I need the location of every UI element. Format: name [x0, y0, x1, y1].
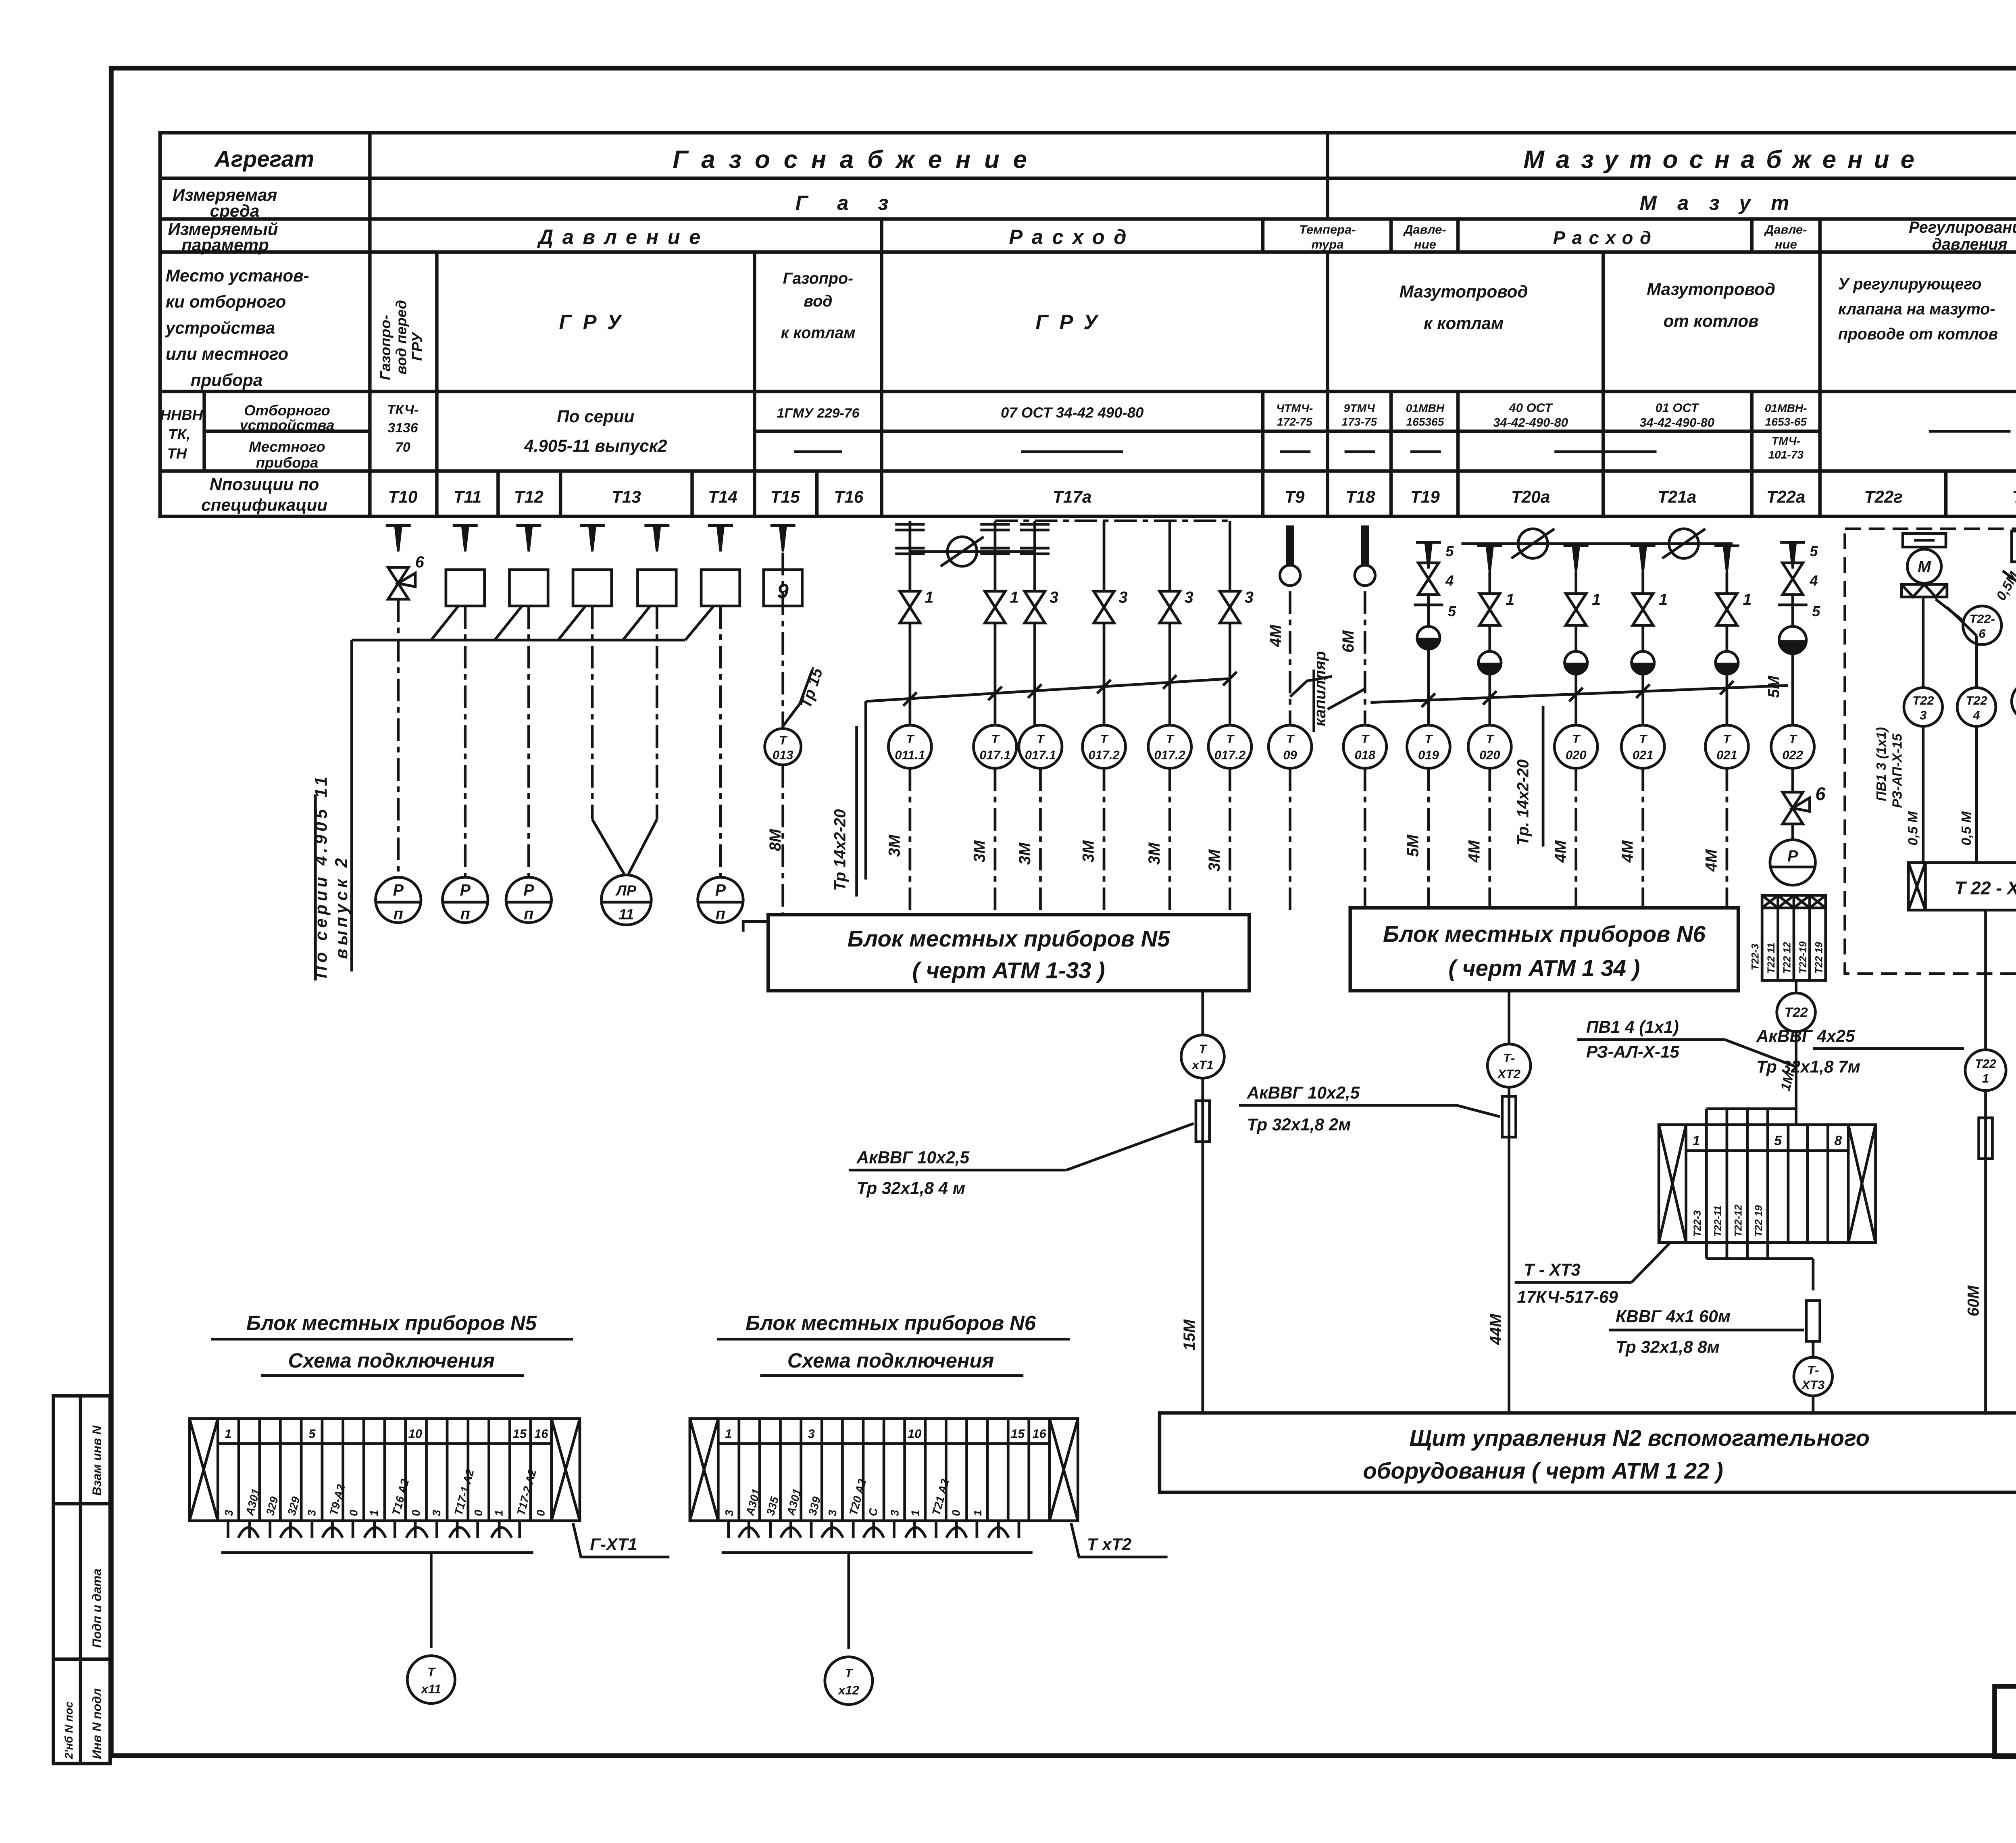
- svg-text:020: 020: [1566, 748, 1587, 762]
- svg-text:Т: Т: [779, 733, 788, 747]
- svg-text:6: 6: [1979, 626, 1986, 640]
- svg-text:3М: 3М: [1206, 849, 1223, 871]
- svg-text:ГРУ: ГРУ: [1035, 311, 1109, 334]
- svg-text:Т 22 - ХТ: Т 22 - ХТ: [1955, 878, 2016, 898]
- svg-text:017.1: 017.1: [979, 748, 1010, 762]
- svg-text:х12: х12: [837, 1683, 859, 1697]
- svg-text:017.2: 017.2: [1088, 748, 1119, 762]
- svg-text:1: 1: [368, 1510, 380, 1516]
- svg-text:4: 4: [1972, 708, 1980, 722]
- svg-text:Т19: Т19: [1410, 488, 1440, 507]
- svg-text:6: 6: [415, 553, 425, 571]
- svg-text:4: 4: [1445, 572, 1454, 589]
- svg-text:1: 1: [1506, 591, 1514, 609]
- svg-text:Взам инв N: Взам инв N: [90, 1425, 104, 1496]
- svg-text:3М: 3М: [1016, 842, 1034, 865]
- svg-text:Т10: Т10: [388, 488, 418, 507]
- svg-text:от котлов: от котлов: [1663, 311, 1758, 330]
- svg-text:10: 10: [408, 1426, 422, 1441]
- svg-text:Расход: Расход: [1553, 227, 1658, 248]
- svg-text:0,5 М: 0,5 М: [1906, 811, 1921, 845]
- svg-text:Тр 32х1,8 2м: Тр 32х1,8 2м: [1247, 1115, 1351, 1134]
- svg-text:Т15: Т15: [771, 488, 800, 507]
- svg-text:5: 5: [1448, 603, 1456, 619]
- svg-text:5М: 5М: [1404, 834, 1422, 857]
- svg-text:Т: Т: [845, 1666, 854, 1680]
- svg-text:1: 1: [225, 1426, 231, 1441]
- svg-text:ГРУ: ГРУ: [409, 331, 425, 361]
- svg-text:1: 1: [493, 1510, 505, 1516]
- svg-text:01МВН: 01МВН: [1406, 402, 1445, 414]
- svg-text:Т21а: Т21а: [1658, 488, 1696, 507]
- svg-text:Газопро-: Газопро-: [783, 270, 853, 288]
- svg-text:Т13: Т13: [612, 488, 641, 507]
- svg-text:ННВН: ННВН: [160, 407, 203, 423]
- svg-text:4М: 4М: [1552, 840, 1569, 863]
- svg-text:( черт АТМ 1 34 ): ( черт АТМ 1 34 ): [1448, 955, 1640, 981]
- svg-text:Т18: Т18: [1346, 488, 1375, 507]
- svg-text:4М: 4М: [1618, 840, 1636, 863]
- svg-text:018: 018: [1354, 748, 1375, 762]
- svg-text:17КЧ-517-69: 17КЧ-517-69: [1517, 1288, 1618, 1307]
- svg-text:АкВВГ 4х25: АкВВГ 4х25: [1756, 1026, 1855, 1045]
- svg-text:Мазутопровод: Мазутопровод: [1400, 282, 1528, 301]
- svg-text:Инв N подл: Инв N подл: [90, 1688, 104, 1759]
- svg-text:1: 1: [971, 1510, 984, 1516]
- svg-text:1: 1: [1659, 591, 1668, 609]
- svg-text:Т22: Т22: [1785, 1005, 1808, 1020]
- svg-text:АкВВГ 10х2,5: АкВВГ 10х2,5: [856, 1148, 970, 1167]
- svg-text:165365: 165365: [1406, 415, 1444, 428]
- svg-text:ПВ1 3 (1х1): ПВ1 3 (1х1): [1874, 727, 1889, 801]
- svg-text:15М: 15М: [1181, 1319, 1198, 1351]
- svg-text:АкВВГ 10х2,5: АкВВГ 10х2,5: [1247, 1083, 1360, 1102]
- svg-text:101-73: 101-73: [1768, 448, 1804, 461]
- svg-text:5: 5: [308, 1426, 316, 1441]
- svg-text:1: 1: [909, 1510, 921, 1516]
- svg-text:прибора: прибора: [191, 371, 262, 390]
- svg-text:ТН: ТН: [167, 445, 187, 462]
- svg-text:Блок местных приборов N5: Блок местных приборов N5: [848, 926, 1170, 951]
- svg-text:Газопро-: Газопро-: [377, 315, 394, 380]
- svg-text:3: 3: [1185, 588, 1193, 606]
- svg-text:Т: Т: [1166, 732, 1175, 746]
- svg-text:5: 5: [1445, 543, 1454, 559]
- svg-text:Т22в: Т22в: [2012, 488, 2016, 507]
- svg-text:0,5М: 0,5М: [1993, 569, 2016, 603]
- svg-text:Т22 12: Т22 12: [1782, 942, 1793, 974]
- svg-text:( черт АТМ 1-33 ): ( черт АТМ 1-33 ): [912, 958, 1105, 983]
- svg-text:Т: Т: [906, 732, 915, 746]
- svg-text:Давление: Давление: [537, 225, 710, 248]
- svg-text:4М: 4М: [1703, 849, 1720, 872]
- svg-text:Темпера-: Темпера-: [1299, 223, 1356, 237]
- svg-text:013: 013: [773, 748, 793, 762]
- svg-text:Т22 19: Т22 19: [1753, 1205, 1764, 1237]
- svg-text:ХТ2: ХТ2: [1497, 1067, 1520, 1081]
- svg-text:ПВ1 4 (1х1): ПВ1 4 (1х1): [1586, 1017, 1679, 1036]
- svg-text:Отборного: Отборного: [244, 402, 330, 419]
- svg-text:4М: 4М: [1465, 840, 1483, 863]
- svg-text:4.905-11 выпуск2: 4.905-11 выпуск2: [524, 436, 667, 455]
- svg-text:Местного: Местного: [249, 438, 325, 455]
- svg-text:ки отборного: ки отборного: [166, 292, 286, 311]
- svg-text:60М: 60М: [1965, 1285, 1983, 1316]
- svg-text:к котлам: к котлам: [1424, 314, 1504, 333]
- svg-text:Мазут: Мазут: [1640, 192, 1810, 215]
- svg-text:6: 6: [1815, 784, 1826, 804]
- svg-text:Т22 11: Т22 11: [1766, 943, 1777, 974]
- svg-text:3М: 3М: [886, 834, 904, 857]
- svg-text:Т: Т: [427, 1665, 436, 1679]
- svg-text:Тр 32х1,8 4 м: Тр 32х1,8 4 м: [857, 1178, 965, 1197]
- svg-text:9ТМЧ: 9ТМЧ: [1343, 402, 1375, 414]
- svg-text:021: 021: [1633, 748, 1654, 762]
- svg-text:х11: х11: [421, 1682, 441, 1696]
- svg-text:Т22: Т22: [1966, 694, 1987, 708]
- svg-text:3М: 3М: [1145, 842, 1163, 865]
- svg-text:Газ: Газ: [796, 192, 918, 215]
- svg-text:0,5 М: 0,5 М: [2013, 811, 2016, 845]
- svg-text:1653-65: 1653-65: [1765, 415, 1807, 428]
- svg-text:017.1: 017.1: [1025, 748, 1056, 762]
- svg-text:1: 1: [925, 588, 933, 606]
- svg-text:3: 3: [430, 1510, 443, 1516]
- svg-text:01МВН-: 01МВН-: [1765, 402, 1807, 414]
- svg-text:Т: Т: [991, 732, 1000, 746]
- svg-text:Т: Т: [1486, 732, 1495, 746]
- svg-text:Т22: Т22: [1975, 1057, 1996, 1071]
- svg-text:017.2: 017.2: [1154, 748, 1185, 762]
- svg-text:оборудования ( черт АТМ: оборудования ( черт АТМ 1 22 ): [1363, 1458, 1723, 1484]
- svg-text:16: 16: [1032, 1426, 1046, 1441]
- svg-text:3М: 3М: [1080, 840, 1098, 863]
- svg-text:ЧТМЧ-: ЧТМЧ-: [1276, 402, 1313, 414]
- svg-text:Т22-12: Т22-12: [1733, 1205, 1744, 1237]
- svg-text:спецификации: спецификации: [201, 495, 327, 514]
- svg-text:КВВГ 4х1 60м: КВВГ 4х1 60м: [1616, 1307, 1731, 1326]
- svg-text:34-42-490-80: 34-42-490-80: [1493, 415, 1568, 429]
- svg-text:Т: Т: [1361, 732, 1370, 746]
- svg-text:15: 15: [1011, 1426, 1025, 1441]
- svg-text:3М: 3М: [971, 840, 989, 863]
- svg-text:Т22а: Т22а: [1766, 488, 1805, 507]
- svg-text:ХТ3: ХТ3: [1801, 1378, 1824, 1392]
- svg-text:С: С: [867, 1508, 879, 1516]
- svg-text:Т22: Т22: [1912, 694, 1934, 708]
- svg-text:1: 1: [1693, 1133, 1700, 1148]
- svg-text:Т22-19: Т22-19: [1797, 941, 1809, 974]
- svg-text:Т: Т: [1572, 732, 1581, 746]
- svg-text:0,5 М: 0,5 М: [1959, 811, 1974, 845]
- svg-text:Давле-: Давле-: [1764, 223, 1807, 237]
- svg-text:проводе от котлов: проводе от котлов: [1838, 325, 1998, 343]
- svg-text:8: 8: [1834, 1133, 1842, 1148]
- svg-text:У регулирующего: У регулирующего: [1838, 275, 1982, 293]
- svg-text:6М: 6М: [1339, 630, 1357, 653]
- svg-text:Блок местных приборов N6: Блок местных приборов N6: [746, 1311, 1036, 1334]
- svg-text:019: 019: [1418, 748, 1439, 762]
- svg-text:Т12: Т12: [514, 488, 544, 507]
- svg-text:173-75: 173-75: [1341, 415, 1377, 428]
- svg-text:Т: Т: [1226, 732, 1235, 746]
- svg-text:3136: 3136: [387, 420, 418, 436]
- svg-text:Т22-11: Т22-11: [1712, 1205, 1724, 1237]
- svg-text:Т: Т: [1286, 732, 1295, 746]
- svg-text:4: 4: [1809, 572, 1818, 589]
- svg-text:3: 3: [723, 1510, 735, 1516]
- svg-text:клапана на мазуто-: клапана на мазуто-: [1838, 300, 1995, 318]
- svg-text:Nпозиции по: Nпозиции по: [210, 475, 319, 494]
- svg-text:Т22-3: Т22-3: [1750, 944, 1761, 970]
- svg-text:Регулирование: Регулирование: [1909, 219, 2016, 236]
- svg-text:0: 0: [410, 1510, 422, 1516]
- svg-text:Т хТ2: Т хТ2: [1087, 1535, 1132, 1554]
- svg-text:021: 021: [1716, 748, 1737, 762]
- svg-text:3: 3: [1119, 588, 1128, 606]
- svg-text:1ГМУ 229-76: 1ГМУ 229-76: [777, 406, 859, 421]
- svg-text:Т-: Т-: [1807, 1363, 1819, 1377]
- svg-text:Тр 14х2-20: Тр 14х2-20: [831, 809, 849, 891]
- svg-text:Место установ-: Место установ-: [166, 266, 309, 285]
- svg-text:3: 3: [826, 1510, 839, 1516]
- svg-text:3: 3: [808, 1426, 814, 1441]
- svg-text:Т: Т: [1789, 732, 1798, 746]
- svg-text:Т: Т: [1723, 732, 1732, 746]
- svg-text:хТ1: хТ1: [1191, 1058, 1213, 1072]
- svg-text:Щит управления N2 вспомо: Щит управления N2 вспомогательного: [1410, 1425, 1870, 1451]
- svg-text:34-42-490-80: 34-42-490-80: [1639, 415, 1714, 429]
- svg-text:2'нб N пос: 2'нб N пос: [62, 1701, 75, 1760]
- svg-text:70: 70: [395, 440, 410, 455]
- svg-text:017.2: 017.2: [1214, 748, 1245, 762]
- svg-text:3: 3: [1050, 588, 1058, 606]
- svg-text:09: 09: [1283, 748, 1297, 762]
- svg-text:к котлам: к котлам: [781, 324, 855, 342]
- svg-text:3: 3: [223, 1510, 235, 1516]
- svg-text:011.1: 011.1: [895, 748, 925, 762]
- svg-text:ние: ние: [1414, 237, 1436, 251]
- svg-text:Т16: Т16: [834, 488, 864, 507]
- svg-text:РЗ-АЛ-Х-15: РЗ-АЛ-Х-15: [1586, 1042, 1679, 1061]
- svg-text:Подп и дата: Подп и дата: [90, 1569, 104, 1648]
- svg-text:1: 1: [725, 1426, 732, 1441]
- svg-text:Блок местных приборов N5: Блок местных приборов N5: [246, 1311, 537, 1334]
- svg-text:Газоснабжение: Газоснабжение: [673, 146, 1040, 173]
- svg-text:По серии: По серии: [557, 407, 634, 426]
- svg-text:8М: 8М: [766, 829, 784, 851]
- svg-text:40 ОСТ: 40 ОСТ: [1509, 400, 1554, 415]
- svg-text:РЗ-АП-Х-15: РЗ-АП-Х-15: [1889, 733, 1905, 808]
- svg-text:Т20а: Т20а: [1511, 488, 1550, 507]
- svg-text:Тр 32х1,8 8м: Тр 32х1,8 8м: [1616, 1337, 1720, 1356]
- svg-text:Мазутоснабжение: Мазутоснабжение: [1523, 146, 1926, 173]
- svg-text:ЛР: ЛР: [615, 882, 637, 899]
- svg-text:0: 0: [950, 1510, 962, 1516]
- svg-text:ТМЧ-: ТМЧ-: [1772, 435, 1800, 447]
- svg-text:0: 0: [535, 1510, 547, 1516]
- svg-text:М: М: [1918, 558, 1931, 575]
- svg-text:07 ОСТ 34-42 490-80: 07 ОСТ 34-42 490-80: [1001, 404, 1143, 421]
- svg-text:параметр: параметр: [181, 236, 269, 254]
- svg-text:Т22г: Т22г: [1864, 488, 1903, 507]
- svg-text:Т22 19: Т22 19: [1813, 942, 1824, 974]
- svg-text:ние: ние: [1775, 237, 1797, 251]
- svg-text:01 ОСТ: 01 ОСТ: [1656, 400, 1700, 415]
- svg-text:1: 1: [1010, 588, 1018, 606]
- svg-text:Г-ХТ1: Г-ХТ1: [590, 1535, 637, 1554]
- svg-text:вод: вод: [804, 292, 832, 310]
- svg-text:устройства: устройства: [165, 318, 275, 337]
- svg-text:44М: 44М: [1487, 1313, 1505, 1345]
- svg-text:3: 3: [1245, 588, 1254, 606]
- svg-text:Т: Т: [1199, 1042, 1208, 1056]
- svg-text:ТК,: ТК,: [168, 426, 190, 442]
- svg-text:1: 1: [1592, 591, 1601, 609]
- svg-text:020: 020: [1479, 748, 1500, 762]
- svg-text:Т11: Т11: [454, 488, 482, 507]
- svg-text:Мазутопровод: Мазутопровод: [1647, 280, 1775, 299]
- svg-text:3: 3: [889, 1510, 901, 1516]
- svg-text:устройства: устройства: [239, 417, 334, 434]
- svg-text:Блок местных приборов N6: Блок местных приборов N6: [1383, 921, 1706, 947]
- svg-text:5: 5: [1810, 543, 1818, 559]
- svg-text:прибора: прибора: [256, 454, 319, 471]
- svg-text:0: 0: [347, 1510, 360, 1516]
- svg-text:Т: Т: [1639, 732, 1648, 746]
- svg-text:3: 3: [305, 1510, 318, 1516]
- svg-text:Т22-: Т22-: [1969, 612, 1995, 626]
- svg-text:Т17а: Т17а: [1053, 488, 1091, 507]
- svg-text:1: 1: [1743, 591, 1752, 609]
- svg-text:Тр 32х1,8 7м: Тр 32х1,8 7м: [1756, 1057, 1860, 1076]
- svg-text:Р: Р: [1787, 847, 1798, 865]
- svg-text:11: 11: [619, 906, 634, 922]
- svg-text:Схема подключения: Схема подключения: [288, 1349, 495, 1372]
- svg-text:5: 5: [1812, 603, 1820, 619]
- svg-text:ТКЧ-: ТКЧ-: [387, 402, 419, 417]
- svg-text:вод перед: вод перед: [393, 300, 409, 375]
- svg-text:Т22-3: Т22-3: [1692, 1210, 1703, 1237]
- svg-text:или местного: или местного: [166, 344, 288, 363]
- svg-text:4М: 4М: [1267, 624, 1285, 647]
- svg-text:5: 5: [1774, 1133, 1782, 1148]
- svg-text:Т - ХТ3: Т - ХТ3: [1524, 1260, 1581, 1279]
- svg-text:ГРУ: ГРУ: [559, 311, 633, 334]
- svg-text:давления: давления: [1932, 236, 2008, 253]
- svg-text:Давле-: Давле-: [1403, 223, 1446, 237]
- svg-text:среда: среда: [210, 201, 260, 220]
- svg-text:Расход: Расход: [1009, 225, 1135, 248]
- svg-text:022: 022: [1782, 748, 1803, 762]
- svg-text:Тр. 14х2-20: Тр. 14х2-20: [1514, 759, 1532, 846]
- svg-text:Агрегат: Агрегат: [214, 146, 314, 172]
- svg-text:172-75: 172-75: [1277, 415, 1312, 428]
- svg-text:Т9: Т9: [1285, 488, 1305, 507]
- svg-text:Т14: Т14: [708, 488, 737, 507]
- svg-text:3: 3: [1920, 708, 1926, 722]
- svg-text:выпуск 2: выпуск 2: [332, 855, 351, 959]
- svg-text:тура: тура: [1311, 237, 1343, 251]
- svg-text:16: 16: [534, 1426, 548, 1441]
- svg-text:0: 0: [472, 1510, 485, 1516]
- svg-text:Т: Т: [1037, 732, 1045, 746]
- svg-text:Т: Т: [1425, 732, 1433, 746]
- svg-text:Схема подключения: Схема подключения: [787, 1349, 994, 1372]
- svg-text:15: 15: [513, 1426, 527, 1441]
- svg-text:10: 10: [908, 1426, 921, 1441]
- svg-text:Т: Т: [1100, 732, 1109, 746]
- svg-text:1: 1: [1982, 1072, 1989, 1086]
- svg-text:Т-: Т-: [1503, 1051, 1515, 1065]
